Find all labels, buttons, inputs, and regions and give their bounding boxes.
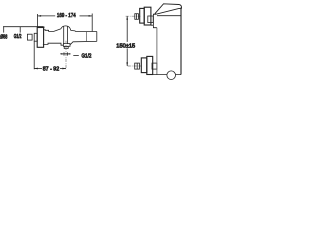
svg-text:Ø68: Ø68 [0, 34, 7, 40]
body bottom edge [153, 74, 181, 76]
union collar [34, 33, 37, 41]
outlet thread dimension [60, 52, 70, 55]
bottom escutcheon [141, 58, 147, 73]
leader tick G1/2 label [19, 27, 21, 33]
lever base edge [152, 14, 154, 25]
spout collar [63, 44, 70, 47]
right view: top centerline [126, 15, 141, 17]
svg-text:G1/2: G1/2 [14, 33, 22, 39]
leader tick diameter label [3, 27, 5, 33]
bottom flange [147, 56, 153, 74]
svg-text:G1/2: G1/2 [82, 53, 92, 60]
shoulder to end [71, 30, 97, 31]
lever base connector [153, 13, 156, 15]
dimension 169-174 line [38, 15, 93, 17]
svg-text:150±15: 150±15 [116, 43, 135, 49]
dimension 87-92 line [34, 68, 66, 70]
lever stem right [67, 26, 69, 43]
handle lever [155, 4, 182, 14]
body bottom profile [43, 43, 64, 45]
bottom union nut [135, 63, 140, 69]
knob joint [85, 32, 87, 42]
top escutcheon [140, 8, 145, 23]
end cap [96, 32, 98, 42]
G1/2 outlet leader [73, 54, 79, 56]
top inner detail [148, 16, 153, 23]
bottom inner detail [152, 63, 157, 69]
lever cap [61, 26, 71, 31]
body top profile [44, 29, 61, 32]
under-body curve [70, 41, 97, 45]
dimension 150±15 line [126, 16, 128, 66]
aerator tip [64, 46, 68, 48]
svg-text:87 - 92: 87 - 92 [43, 66, 59, 72]
top flange [144, 7, 151, 25]
svg-text:169 - 174: 169 - 174 [57, 13, 76, 20]
body right edge [180, 8, 182, 75]
body top edge [157, 15, 181, 17]
extension line left of 169-174 [37, 14, 39, 27]
extension line wall for 87-92 [33, 41, 35, 69]
extension line right of 169-174 [91, 14, 93, 32]
wall nipple [27, 34, 32, 40]
outlet centerline [65, 41, 67, 70]
hose outlet circle [167, 71, 176, 80]
escutcheon thick top [37, 26, 44, 28]
top union nut [135, 14, 139, 20]
body left edge [156, 28, 158, 75]
lever stem left [63, 26, 65, 43]
top step to body [151, 25, 157, 28]
escutcheon left view [37, 27, 43, 47]
shared leader line for labels [3, 26, 43, 28]
right view: bottom centerline [128, 65, 142, 67]
